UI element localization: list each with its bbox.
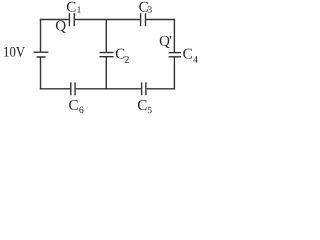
- wire left branch lower (battery - plate down to bottom-left corner): [40, 57, 42, 90]
- capacitor C2 plates (on middle branch): [100, 52, 114, 54]
- label 10V: [4, 47, 25, 57]
- capacitor C3 plates (on top wire, right): [140, 13, 142, 26]
- label C5: [138, 100, 152, 113]
- capacitor C1 plates (on top wire, left): [68, 13, 70, 26]
- label C6: [69, 100, 83, 113]
- wire middle branch lower (C2 bottom plate down to bottom junction): [105, 57, 107, 90]
- capacitor C5 plates (on bottom wire, right): [141, 82, 143, 95]
- wire top-right segment (C3 right plate to top-right corner): [146, 19, 175, 21]
- label C4: [183, 49, 198, 63]
- wire middle branch upper (top junction down to C2 top plate): [105, 19, 107, 53]
- wire left branch upper (top-left corner down to battery + plate): [40, 19, 42, 52]
- label C1: [67, 2, 81, 13]
- wire top-left segment (top-left corner to C1 left plate): [40, 19, 69, 21]
- label C3: [139, 2, 152, 13]
- capacitor C6 plates (on bottom wire, left): [70, 82, 72, 95]
- label Q': [160, 36, 171, 48]
- wire bottom-left segment (bottom-left corner to C6 left plate): [40, 88, 70, 90]
- capacitor C4 plates (on right branch): [169, 52, 181, 54]
- battery 10V short negative plate: [37, 56, 46, 58]
- wire bottom-right segment (C5 right plate to bottom-right corner): [147, 88, 176, 90]
- wire top-middle segment (C1 right plate to C3 left plate, junction with middle branch): [75, 19, 140, 21]
- battery 10V long positive plate: [34, 51, 49, 53]
- label Q: [56, 21, 66, 33]
- wire right branch lower (C4 bottom plate down to bottom-right corner): [173, 57, 175, 90]
- wire right branch upper (top-right corner down to C4 top plate): [173, 19, 175, 53]
- label C2: [116, 49, 129, 63]
- wire bottom-middle segment (C6 right plate to C5 left plate, junction with middle branch): [76, 88, 141, 90]
